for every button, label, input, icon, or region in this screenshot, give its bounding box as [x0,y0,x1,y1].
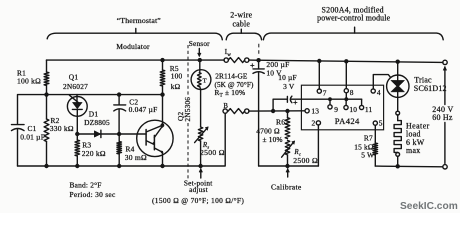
node: pin8 wire on rail [344,59,348,63]
node: Q1 cathode / R3 / D1 junction [75,132,79,136]
svg-text:100 kΩ: 100 kΩ [17,77,41,86]
label: Iw line current [225,47,232,58]
svg-text:7: 7 [323,89,327,98]
svg-text:5 W: 5 W [361,150,374,159]
svg-text:D1: D1 [89,109,99,118]
resistor R2 [44,95,74,166]
wire: bottom rail (thermostat) [18,113,226,166]
svg-text:3 V: 3 V [283,82,295,91]
wire: module bottom rail right [375,165,443,168]
svg-text:13: 13 [311,107,319,116]
svg-text:Band: 2°F: Band: 2°F [70,181,102,190]
node: 200uF top [256,58,260,62]
terminal: AC line bottom [443,165,447,169]
wire: top supply rail (thermostat) [47,59,225,61]
node: triac top on rail [396,60,400,64]
wire: mid rail (R1 bottom to R5 bottom) [18,95,163,125]
pin 13 of PA424 [305,107,319,116]
label: Modulator [116,42,150,51]
svg-text:cable: cable [232,19,250,28]
node: heater bottom on rail [396,164,400,168]
pin 8 of PA424 [344,61,354,97]
svg-text:max: max [406,146,421,155]
svg-text:Calibrate: Calibrate [271,182,302,191]
svg-text:kΩ: kΩ [171,82,181,91]
terminal: Iw sensor-line terminals with wire squiggle [224,58,256,63]
svg-text:0.01 µF: 0.01 µF [20,132,45,141]
svg-text:SeekIC.com: SeekIC.com [400,201,458,212]
pin 7 of PA424 [317,61,327,98]
node: C2 top on mid rail [117,92,121,96]
svg-text:B: B [223,103,228,110]
svg-text:30 mΩ: 30 mΩ [125,153,147,162]
resistor R7 [354,134,377,166]
svg-text:10: 10 [349,105,357,114]
diode D1 (DZ8805) [84,109,110,137]
svg-text:w: w [227,53,231,58]
capacitor C2 [114,95,158,134]
label: Sensor with down arrow [189,39,210,57]
svg-text:2N6027: 2N6027 [63,82,88,91]
svg-text:2-wire: 2-wire [230,11,252,20]
brace: S200A4 power-control module [263,5,443,40]
svg-text:Period: 30 sec: Period: 30 sec [70,190,116,199]
svg-text:SC61D12: SC61D12 [414,84,447,93]
svg-text:8: 8 [350,88,354,97]
node: R5 bottom / Q2 collector on mid rail [160,92,164,96]
label: 240 V 60 Hz with leaders [432,66,453,163]
terminal: AC line top [443,60,447,64]
svg-text:0.047 µF: 0.047 µF [129,105,158,114]
svg-text:2: 2 [311,119,315,128]
svg-text:power-control module: power-control module [317,14,391,23]
svg-text:9: 9 [334,105,338,114]
node: R3 bottom [75,164,79,168]
pins 9 10 11 bus of PA424 [328,93,373,114]
svg-text:2R114-GE: 2R114-GE [215,72,248,81]
svg-text:5: 5 [379,119,383,128]
triac SC61D12 [387,62,447,98]
wire: top rail (module) [256,60,443,62]
svg-text:RT ± 10%: RT ± 10% [215,88,246,99]
svg-text:4700 Ω: 4700 Ω [256,126,280,135]
pin 4 of PA424 with gate lead to triac [371,75,390,98]
svg-text:Modulator: Modulator [116,42,150,51]
svg-text:± 10%: ± 10% [263,135,283,144]
wire: module bottom rail left [259,165,319,167]
dashed leader: cable brace to rail [258,44,260,55]
svg-text:PA424: PA424 [335,116,360,126]
node: R1/R2/mid-rail junction [44,92,48,96]
node: Rs bottom on rail [198,164,202,168]
watermark: SeekIC.com [400,201,458,212]
label: Set-point adjust with arrow [152,168,244,205]
resistor R1 [17,60,49,95]
svg-text:330 kΩ: 330 kΩ [50,124,74,133]
label: Calibrate with arrow [271,168,302,191]
node: B line to 10uF riser [271,109,275,113]
svg-text:60 Hz: 60 Hz [432,113,453,122]
resistor R5 [160,60,182,95]
transistor Q2 (Darlington 2N5306) [119,95,192,166]
svg-text:T: T [203,77,207,84]
svg-text:10 µF: 10 µF [278,73,297,82]
node: sensor top on supply rail [198,58,202,62]
resistor R3 [75,134,106,166]
svg-text:adjust: adjust [189,185,208,194]
node: Q2 emitter bottom [160,164,164,168]
node: R6 top on B line [285,109,289,113]
svg-text:R6: R6 [276,118,285,127]
svg-text:4: 4 [377,88,381,97]
brace: 2-wire cable [226,11,261,40]
svg-text:220 kΩ: 220 kΩ [82,149,106,158]
pin 5 of PA424 [373,119,383,142]
node: C2/R4/D1/Q2-base junction [117,132,121,136]
node: R5 top on supply rail [160,58,164,62]
rheostat Rc (calibrate) [282,140,318,166]
resistor R4 [117,134,147,166]
thermistor RT (2R114-GE sensor) [191,60,254,127]
capacitor 200uF 10V electrolytic [251,60,290,166]
node: Rc bottom on rail [285,164,289,168]
resistor R6 [256,111,290,144]
IC U1 PA424 outline [301,85,383,130]
svg-text:“Thermostat”: “Thermostat” [117,16,162,25]
capacitor C1 [12,124,46,166]
node: R4 bottom [117,164,121,168]
svg-text:2500 Ω: 2500 Ω [293,156,318,165]
brace: Thermostat section [47,16,222,40]
svg-text:Sensor: Sensor [189,39,210,48]
svg-text:100: 100 [171,72,183,81]
pin 2 of PA424 [311,119,320,166]
heater load with plug terminals [394,97,430,166]
transistor Q1 (PUT 2N6027) [63,72,88,134]
svg-text:11: 11 [365,105,373,114]
terminal: B return-line terminals with wire squiggle [223,103,249,114]
capacitor 10uF 3V electrolytic [273,73,330,111]
svg-text:2500 Ω: 2500 Ω [200,148,225,157]
node: R2 bottom [44,164,48,168]
svg-text:Q1: Q1 [69,72,79,81]
node: pin7 wire on rail [317,59,321,63]
svg-text:DZ8805: DZ8805 [84,118,110,127]
svg-text:(1500 Ω @ 70°F; 100 Ω/°F): (1500 Ω @ 70°F; 100 Ω/°F) [152,196,244,205]
rheostat Rs (set-point) [195,127,225,166]
wire: Q1 cathode row [77,133,119,135]
svg-text:2N5306: 2N5306 [183,97,192,122]
label: Band / Period note [70,181,116,199]
dashed boundary: sensor enclosure [187,45,189,180]
wire: B line to module [249,110,305,112]
